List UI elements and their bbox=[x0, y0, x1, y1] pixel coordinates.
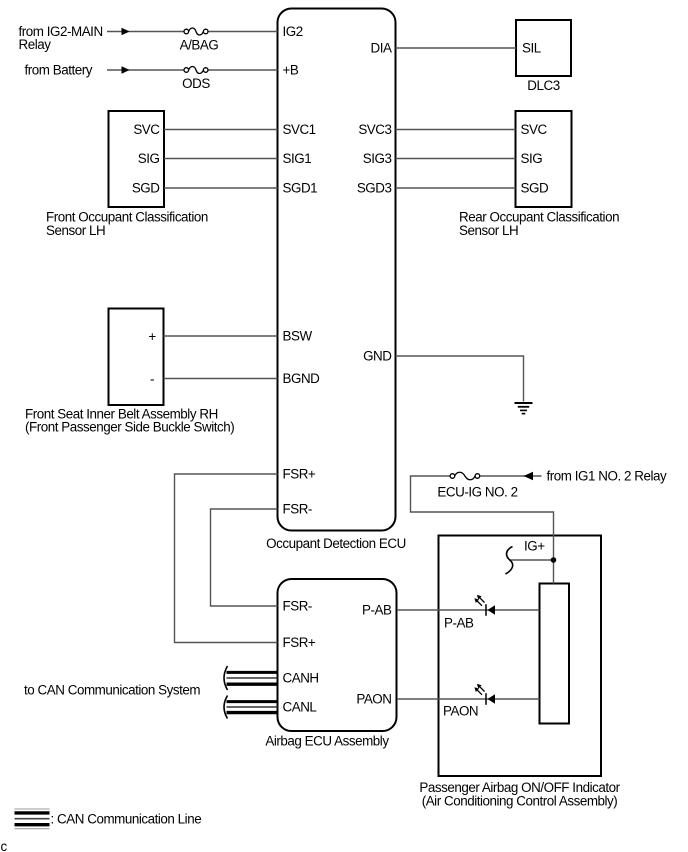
svg-text:Occupant Detection ECU: Occupant Detection ECU bbox=[266, 536, 406, 551]
pin label SGD (front sensor) bbox=[132, 181, 160, 196]
wire ECU-IG NO.2 to IG+ bbox=[411, 476, 554, 584]
pin label SVC (front sensor) bbox=[133, 122, 160, 137]
wire CANL bundle bbox=[224, 696, 278, 719]
wire SVC1 bbox=[164, 129, 278, 131]
svg-text:SVC: SVC bbox=[521, 122, 548, 137]
svg-text:CANH: CANH bbox=[283, 671, 319, 686]
wire BGND bbox=[164, 378, 278, 380]
pin label SIL bbox=[522, 41, 541, 56]
fuse A/BAG bbox=[180, 28, 219, 52]
legend CAN Communication Line symbol bbox=[15, 809, 50, 829]
fuse ECU-IG NO. 2 bbox=[437, 472, 517, 499]
svg-text:from IG1 NO. 2 Relay: from IG1 NO. 2 Relay bbox=[547, 469, 667, 484]
arrow from IG2-MAIN Relay bbox=[122, 28, 130, 35]
switch Front Seat Inner Belt Assembly RH box bbox=[109, 309, 164, 406]
label Airbag ECU Assembly bbox=[265, 734, 389, 749]
ground symbol bbox=[515, 403, 533, 414]
wire SIG1 bbox=[164, 158, 278, 160]
svg-text:(Air Conditioning Control Asse: (Air Conditioning Control Assembly) bbox=[422, 793, 618, 808]
pin label CANL bbox=[283, 700, 317, 715]
pin label FSR+ (Airbag ECU) bbox=[283, 635, 316, 650]
svg-text:PAON: PAON bbox=[356, 692, 391, 707]
svg-text:c: c bbox=[1, 839, 8, 852]
wire PAON bbox=[397, 698, 540, 700]
LED PAON bbox=[474, 684, 495, 705]
svg-text:P-AB: P-AB bbox=[362, 603, 392, 618]
pin label BSW bbox=[283, 329, 313, 344]
node label P-AB (indicator) bbox=[444, 616, 474, 631]
pin label SVC3 bbox=[358, 122, 391, 137]
pin label SIG (rear sensor) bbox=[521, 151, 543, 166]
svg-text:SIG: SIG bbox=[521, 151, 543, 166]
pin label SGD1 bbox=[283, 181, 318, 196]
LED P-AB bbox=[474, 595, 495, 616]
footnote c bbox=[1, 839, 8, 852]
label DLC3 bbox=[527, 78, 559, 93]
ECU U2 Airbag ECU Assembly box bbox=[278, 579, 397, 731]
svg-text:SVC: SVC bbox=[133, 122, 160, 137]
pin label SIG3 bbox=[363, 151, 392, 166]
svg-text:+: + bbox=[148, 329, 156, 344]
label from IG2-MAIN Relay bbox=[19, 24, 103, 52]
svg-text:SVC3: SVC3 bbox=[358, 122, 391, 137]
wire DIA to SIL bbox=[396, 47, 517, 49]
wire +B bbox=[107, 69, 278, 71]
pin label + (belt switch) bbox=[148, 329, 156, 344]
pin label P-AB (Airbag ECU) bbox=[362, 603, 392, 618]
legend text CAN Communication Line bbox=[51, 811, 202, 826]
pin label PAON (Airbag ECU) bbox=[356, 692, 391, 707]
svg-text:(Front Passenger Side Buckle S: (Front Passenger Side Buckle Switch) bbox=[25, 420, 234, 435]
svg-text:DLC3: DLC3 bbox=[527, 78, 559, 93]
pin label +B bbox=[283, 63, 299, 78]
wire SVC3 bbox=[396, 129, 516, 131]
wire FSR- (ECU to Airbag ECU) bbox=[211, 509, 278, 606]
pin label FSR- (ECU) bbox=[283, 502, 312, 517]
arrow from IG1 NO. 2 Relay bbox=[524, 472, 534, 480]
pin label GND bbox=[363, 349, 392, 364]
svg-text:A/BAG: A/BAG bbox=[180, 37, 219, 52]
svg-text:CANL: CANL bbox=[283, 700, 317, 715]
pin label SGD3 bbox=[357, 181, 392, 196]
svg-text:SGD: SGD bbox=[132, 181, 160, 196]
label Front Seat Inner Belt Assembly RH bbox=[25, 406, 234, 434]
label Occupant Detection ECU bbox=[266, 536, 406, 551]
sensor Front Occupant Classification Sensor LH box bbox=[109, 111, 165, 207]
svg-text:FSR-: FSR- bbox=[283, 599, 312, 614]
svg-text:P-AB: P-AB bbox=[444, 616, 474, 631]
wire CANH bundle bbox=[224, 666, 278, 690]
svg-text:GND: GND bbox=[363, 349, 392, 364]
label Passenger Airbag ON/OFF Indicator bbox=[419, 780, 620, 809]
pin label BGND bbox=[283, 371, 321, 386]
wire GND bbox=[396, 356, 524, 402]
pin label SVC (rear sensor) bbox=[521, 122, 548, 137]
wire IG2 bbox=[107, 31, 278, 33]
svg-text:DIA: DIA bbox=[371, 41, 392, 56]
svg-text:-: - bbox=[150, 372, 154, 387]
junction dot IG+ bbox=[551, 557, 557, 563]
svg-text:SIL: SIL bbox=[522, 41, 541, 56]
svg-text:Sensor LH: Sensor LH bbox=[459, 223, 518, 238]
svg-text:SGD: SGD bbox=[521, 181, 549, 196]
svg-text:Sensor LH: Sensor LH bbox=[46, 223, 105, 238]
ECU U1 Occupant Detection ECU box bbox=[278, 9, 396, 531]
svg-text:PAON: PAON bbox=[443, 704, 478, 719]
svg-text:SVC1: SVC1 bbox=[283, 122, 316, 137]
svg-text:SIG3: SIG3 bbox=[363, 151, 392, 166]
svg-text:to CAN Communication System: to CAN Communication System bbox=[24, 682, 200, 697]
svg-text:IG2: IG2 bbox=[283, 24, 303, 39]
svg-text:SIG1: SIG1 bbox=[283, 151, 312, 166]
pin label SIG (front sensor) bbox=[138, 151, 160, 166]
fuse ODS bbox=[182, 66, 210, 91]
indicator Passenger Airbag ON/OFF Indicator box bbox=[439, 536, 602, 777]
pin label SIG1 bbox=[283, 151, 312, 166]
svg-text:+B: +B bbox=[283, 63, 299, 78]
pin label CANH bbox=[283, 671, 319, 686]
svg-text:Relay: Relay bbox=[19, 37, 52, 52]
svg-text:BGND: BGND bbox=[283, 371, 321, 386]
svg-text:IG+: IG+ bbox=[524, 539, 545, 554]
wire FSR+ (ECU to Airbag ECU) bbox=[175, 474, 278, 643]
node IG+ bbox=[524, 539, 545, 554]
svg-text:SGD1: SGD1 bbox=[283, 181, 318, 196]
connector DLC3 box bbox=[516, 20, 571, 76]
connector squiggle IG+ bbox=[506, 547, 513, 575]
sensor Rear Occupant Classification Sensor LH box bbox=[516, 111, 572, 207]
svg-text:: CAN Communication Line: : CAN Communication Line bbox=[51, 811, 202, 826]
svg-text:ODS: ODS bbox=[182, 76, 210, 91]
svg-text:BSW: BSW bbox=[283, 329, 313, 344]
label from Battery bbox=[25, 63, 93, 78]
wire IG+ stub bbox=[510, 559, 554, 561]
pin label FSR- (Airbag ECU) bbox=[283, 599, 312, 614]
wire SIG3 bbox=[396, 158, 516, 160]
svg-text:FSR-: FSR- bbox=[283, 502, 312, 517]
node label PAON (indicator) bbox=[443, 704, 478, 719]
svg-text:from Battery: from Battery bbox=[25, 63, 93, 78]
pin label SGD (rear sensor) bbox=[521, 181, 549, 196]
svg-text:SGD3: SGD3 bbox=[357, 181, 392, 196]
pin label DIA bbox=[371, 41, 392, 56]
svg-text:FSR+: FSR+ bbox=[283, 467, 316, 482]
svg-text:ECU-IG NO. 2: ECU-IG NO. 2 bbox=[437, 485, 517, 500]
label from IG1 NO. 2 Relay bbox=[547, 469, 667, 484]
label to CAN Communication System bbox=[24, 682, 200, 697]
arrow from Battery bbox=[122, 66, 130, 73]
svg-text:FSR+: FSR+ bbox=[283, 635, 316, 650]
lamp module inner rectangle bbox=[540, 584, 570, 724]
pin label SVC1 bbox=[283, 122, 316, 137]
svg-text:SIG: SIG bbox=[138, 151, 160, 166]
wire SGD3 bbox=[396, 187, 516, 189]
wire P-AB bbox=[397, 609, 540, 611]
wire SGD1 bbox=[164, 187, 278, 189]
pin label FSR+ (ECU) bbox=[283, 467, 316, 482]
wire BSW bbox=[164, 335, 278, 337]
pin label - (belt switch) bbox=[150, 372, 154, 387]
label Front Occupant Classification Sensor LH bbox=[46, 210, 208, 239]
svg-text:Airbag ECU Assembly: Airbag ECU Assembly bbox=[265, 734, 389, 749]
label Rear Occupant Classification Sensor LH bbox=[459, 210, 619, 239]
pin label IG2 bbox=[283, 24, 303, 39]
